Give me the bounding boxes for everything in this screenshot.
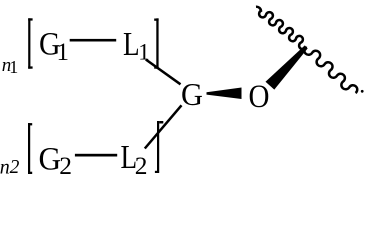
period dot (361, 90, 364, 93)
subscript 2 of G2 (59, 151, 72, 180)
svg-text:1: 1 (9, 57, 18, 77)
svg-text:2: 2 (10, 157, 20, 178)
wavy bond lower (304, 47, 357, 93)
atom G1 (39, 25, 60, 62)
wire bond L2 to G (145, 105, 182, 148)
svg-text:2: 2 (59, 151, 72, 180)
subscript 1 of L1 (138, 40, 150, 65)
bracket right of n2 group (155, 121, 163, 173)
wedge bond G-O (207, 88, 242, 100)
atom G2 (39, 140, 62, 177)
subscript 2 of L2 (135, 151, 148, 180)
bond G1-L1 (70, 39, 117, 42)
atom L1 (123, 25, 140, 63)
svg-text:G: G (39, 140, 62, 177)
bracket right of n1 group (154, 18, 158, 68)
svg-text:n: n (0, 156, 10, 178)
svg-text:O: O (249, 77, 270, 114)
bracket left of n1 group (28, 18, 32, 68)
svg-text:1: 1 (57, 39, 70, 66)
atom O (249, 77, 270, 114)
svg-text:L: L (123, 25, 140, 63)
wavy bond upper (256, 7, 306, 49)
svg-text:G: G (181, 76, 203, 112)
atom L2 (121, 138, 138, 176)
subscript 1 of G1 (57, 39, 70, 66)
label n2 (0, 156, 20, 178)
atom G central (181, 76, 203, 112)
wire bond L1 to G (146, 60, 181, 85)
label n1 (2, 55, 19, 77)
bond G2-L2 (75, 154, 117, 157)
bracket left of n2 group (28, 123, 32, 174)
wedge bond O up-right (266, 45, 308, 89)
svg-text:2: 2 (135, 151, 148, 180)
